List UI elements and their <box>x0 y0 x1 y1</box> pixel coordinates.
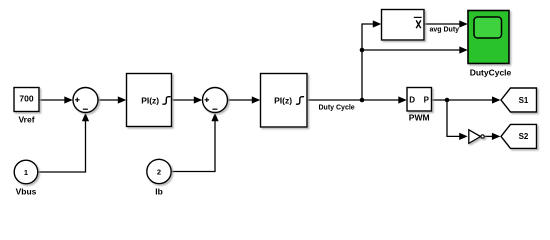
svg-text:700: 700 <box>19 93 33 103</box>
svg-text:PI(z): PI(z) <box>274 95 292 105</box>
svg-text:PWM: PWM <box>409 112 430 122</box>
svg-text:2: 2 <box>157 167 161 176</box>
svg-text:D: D <box>409 95 415 104</box>
svg-text:S1: S1 <box>519 96 529 105</box>
svg-text:PI(z): PI(z) <box>141 95 159 105</box>
svg-text:Vbus: Vbus <box>16 187 37 197</box>
svg-text:P: P <box>424 95 430 104</box>
svg-text:avg Duty: avg Duty <box>430 27 460 34</box>
svg-text:DutyCycle: DutyCycle <box>470 68 512 78</box>
svg-text:Duty Cycle: Duty Cycle <box>319 104 355 111</box>
svg-text:Vref: Vref <box>18 114 34 124</box>
svg-text:S2: S2 <box>519 132 529 141</box>
svg-text:Ib: Ib <box>155 187 163 197</box>
svg-text:1: 1 <box>24 168 28 177</box>
